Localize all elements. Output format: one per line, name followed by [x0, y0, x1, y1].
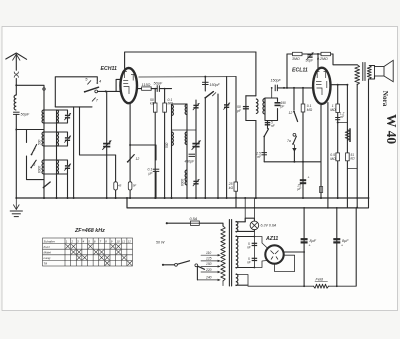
node bus 337 [337, 197, 339, 199]
node left bus [15, 197, 17, 199]
svg-text:AZ11: AZ11 [265, 236, 278, 242]
HT winding [236, 236, 238, 268]
wire res to cap [151, 88, 157, 90]
ground symbol [10, 198, 23, 217]
wire row0 bottom [44, 119, 68, 123]
svg-text:+: + [309, 244, 311, 248]
tap wire 125 [201, 260, 220, 262]
wavechange lever S2 [43, 182, 51, 188]
node r2 top [164, 88, 166, 90]
switch circle a [175, 263, 178, 266]
svg-text:Kurz: Kurz [44, 245, 51, 249]
svg-text:8μF: 8μF [310, 239, 317, 243]
bus junction 218 [217, 197, 219, 199]
antenna arrowhead [13, 54, 20, 60]
node det 303 [302, 161, 304, 163]
bus junction 164.6 [164, 197, 166, 199]
trimmer 50pF fb [307, 52, 314, 59]
wire fuse to primary [199, 223, 223, 226]
resistor OT primary [355, 65, 360, 85]
node det 294 [293, 161, 295, 163]
bus2 junction 327 [327, 207, 329, 209]
svg-text:Schalter: Schalter [44, 239, 56, 243]
svg-text:kΩ: kΩ [229, 186, 234, 190]
bus junction 171.5 [171, 197, 173, 199]
node plate 347 [346, 84, 348, 86]
wire avc res low [302, 112, 304, 198]
svg-text:50 W: 50 W [156, 241, 165, 245]
tap wire 150 [201, 265, 220, 267]
switch 7a lever [292, 136, 296, 145]
wire zig down [356, 84, 358, 208]
tuning gang C1 [102, 140, 111, 149]
capacitor 5nF b [252, 258, 258, 260]
capacitor 150pF grid [271, 79, 282, 92]
svg-text:ECH11: ECH11 [101, 66, 117, 72]
bus junction 187 [186, 197, 188, 199]
speaker return wire [356, 79, 368, 208]
bus junction 155.2 [154, 197, 156, 199]
capacitor tubular a [114, 182, 118, 190]
svg-text:115Ω: 115Ω [142, 83, 151, 87]
wire rail x115 [115, 155, 117, 198]
osc coil Lc [172, 132, 174, 146]
tube ECL11 electrodes [315, 72, 328, 96]
transformer primary [221, 226, 225, 281]
bottom rail [248, 285, 314, 287]
wire row0 top [44, 110, 68, 114]
svg-text:6000: 6000 [181, 179, 185, 186]
node gang tap [105, 90, 107, 92]
lamp feed step [245, 218, 254, 222]
capacitor 25uF cathode [300, 180, 306, 183]
svg-text:2: 2 [70, 239, 73, 243]
node sw12 top [293, 87, 295, 89]
bus junction 44 [43, 197, 45, 199]
wire filter a [303, 208, 305, 286]
antenna coil L1 [14, 95, 16, 110]
wire rail x205 low [204, 99, 206, 199]
osc band lever [204, 92, 213, 99]
speaker lead top [369, 66, 374, 67]
node rail 336 [336, 285, 338, 287]
fuse 0.5A [191, 221, 200, 225]
wire row2 bottom [44, 169, 68, 174]
resistor 0.1M avc [301, 104, 305, 112]
svg-text:3: 3 [33, 163, 35, 167]
svg-text:Feld: Feld [316, 277, 324, 281]
tube ECH11 envelope [120, 68, 137, 103]
node bus 255 [255, 197, 257, 199]
wire HT bottom to AZ11 [236, 267, 255, 269]
svg-text:8μF: 8μF [342, 239, 349, 243]
heater rail x245 [244, 198, 246, 222]
wire ECH11 top cap [125, 52, 256, 69]
wire AZ11 cathode [284, 251, 304, 253]
wire fb to tube top [317, 54, 319, 68]
tap wire 240 [197, 279, 219, 281]
wire box drop x73 [73, 107, 75, 198]
bus1 junction 357.1 [356, 197, 358, 199]
resistor 50k [153, 103, 157, 112]
wire rail x56 [56, 110, 58, 198]
node 5nF b [254, 267, 256, 269]
wire node to filters [16, 129, 44, 131]
node rail56 bus [56, 197, 58, 199]
svg-text:12: 12 [128, 239, 132, 243]
IFT1 primary coil [256, 99, 258, 114]
wire top y77 triode anode [139, 76, 236, 78]
OT core a [362, 63, 364, 81]
wire x255 top [255, 52, 257, 96]
switch contact 3 [30, 160, 36, 168]
trimmer C4 [64, 136, 71, 143]
wire sw12 to det [293, 151, 295, 162]
node 5nF a [254, 236, 256, 238]
wire grid to ECH11 [98, 90, 121, 92]
svg-text:6.3V 0.6A: 6.3V 0.6A [261, 224, 277, 228]
wire detector down [263, 137, 265, 162]
wire cath link2 [347, 168, 357, 170]
bus2 junction 254 [254, 207, 256, 209]
arrow contact [293, 145, 296, 152]
node bus 321 [320, 197, 322, 199]
node loop2 up [271, 87, 273, 89]
wire osc row2 [172, 129, 197, 131]
tap arrow 150 [218, 265, 221, 267]
capacitor IFT1 sec [275, 103, 281, 106]
node bus2 336 [336, 207, 338, 209]
IFT1 loop1 top [246, 95, 256, 97]
wire HT top to AZ11 [236, 236, 255, 238]
node heater 245 [244, 197, 246, 199]
osc coil Lb [185, 105, 187, 115]
svg-text:500: 500 [38, 139, 42, 145]
svg-text:50pF: 50pF [306, 59, 315, 63]
node osc 145 [129, 144, 131, 146]
wire trimmer rail to bus [67, 174, 69, 198]
bus2 junction 304 [303, 207, 305, 209]
bus1 junction 321 [320, 197, 322, 199]
node at 129.5 [15, 129, 17, 131]
right edge filter [355, 208, 357, 286]
wire 5nF pair [253, 237, 255, 268]
wire HT top b [254, 237, 266, 248]
winding3 tap [236, 275, 248, 286]
svg-text:11: 11 [122, 239, 125, 243]
resistor 5k cath [346, 153, 350, 161]
transformer core a [228, 220, 230, 287]
svg-text:MΩ: MΩ [330, 157, 336, 161]
switch position table [43, 238, 133, 266]
mains lever b [198, 266, 205, 269]
tap arrow 125 [218, 260, 221, 262]
capacitor 8uF b [333, 239, 340, 242]
node cath 122 [337, 122, 339, 124]
svg-text:150: 150 [206, 262, 212, 266]
svg-text:10: 10 [116, 239, 120, 243]
svg-text:220: 220 [205, 268, 212, 272]
node bus2 127 [126, 197, 128, 199]
resistor small on pin line [320, 187, 323, 193]
svg-text:450pF: 450pF [185, 160, 196, 164]
wire r50k to bus [154, 112, 156, 198]
speaker lead bottom [369, 76, 375, 79]
ground bus [16, 197, 368, 199]
node bus 171 [171, 197, 173, 199]
IFT1 loop2 left [264, 98, 266, 115]
node bus 226 [226, 197, 228, 199]
contact dot 4 [96, 82, 98, 84]
node fb grid [286, 87, 288, 89]
node bus 164 [164, 197, 166, 199]
node r1 top [154, 88, 156, 90]
switch column lower [27, 156, 45, 180]
wire grid step up [116, 79, 121, 91]
capacitor 0.1uF osc [153, 169, 160, 171]
wire rail x226 [226, 77, 228, 198]
field coil Feld [314, 284, 329, 288]
IFT1 loop2 bottom [265, 109, 278, 121]
bus junction 196 [195, 197, 197, 199]
lamp wire bottom [236, 230, 255, 232]
wire osc to cap 156 [130, 145, 156, 160]
resistor 0.5M cath [336, 153, 340, 161]
wire primary bottom [222, 281, 224, 286]
mains lever a [178, 261, 190, 264]
node filter a [303, 251, 305, 253]
capacitor 2.5nF [261, 153, 267, 155]
rectifier heater winding [236, 274, 238, 286]
coil L4 right winding [57, 160, 59, 174]
capacitor 8uF a [301, 239, 308, 242]
bus junction 115.6 [115, 197, 117, 199]
coil L3 left winding [42, 132, 44, 146]
wire rail x187 [186, 104, 188, 198]
svg-text:500: 500 [165, 142, 169, 148]
osc trimmer top [193, 103, 200, 110]
wire grid y88 b [277, 87, 313, 89]
OT secondary [367, 66, 371, 80]
svg-text:Nora: Nora [381, 91, 389, 107]
bus junction 56.5 [56, 197, 58, 199]
osc trimmer bottom [193, 179, 200, 186]
B+ bus lower [127, 198, 356, 208]
coil L4 left winding [42, 160, 44, 174]
wire row1 bottom [44, 141, 68, 146]
svg-text:Mittel: Mittel [44, 251, 52, 255]
capacitor 50pF antenna [13, 112, 30, 116]
switch circle b [195, 264, 198, 267]
svg-text:+: + [341, 244, 343, 248]
node 1M top [337, 84, 339, 86]
detector lever [263, 129, 268, 138]
svg-text:Lang: Lang [44, 256, 51, 260]
lamp wire left [236, 221, 245, 223]
node bus 196 [195, 197, 197, 199]
wire switch box bottom [55, 106, 92, 108]
svg-text:MΩ: MΩ [330, 108, 336, 112]
tap wire 110 [201, 254, 220, 256]
bottom rail left [236, 284, 248, 286]
lamp rail x254 [253, 198, 255, 218]
capacitor 50pF coupling [154, 82, 163, 92]
grid contact circle [95, 90, 98, 93]
svg-text:6000: 6000 [38, 166, 42, 173]
coil L2 right winding [57, 110, 59, 123]
node bus 67 [67, 197, 69, 199]
wire rail x44 [43, 110, 45, 198]
resistor 0.1M [163, 103, 167, 112]
wire rail x236 [235, 77, 237, 208]
node bus 130 [129, 197, 131, 199]
band switch lever S1 [84, 87, 99, 93]
svg-text:240: 240 [205, 276, 212, 280]
wire row1 top [44, 132, 68, 137]
switch contact 2 [31, 145, 37, 156]
mains terminal b [162, 264, 164, 266]
wire detector horiz [264, 161, 321, 163]
IFT1 cap line [245, 96, 247, 121]
wire avc res [302, 88, 304, 104]
wire x255 bottom [255, 121, 257, 199]
wire rail x218 [217, 94, 219, 198]
capacitor 5nF det [265, 123, 271, 125]
AZ11 heater loop [275, 255, 295, 271]
wire ECL11 pin a [320, 104, 322, 198]
svg-text:7a: 7a [287, 139, 291, 143]
antenna pole wire [15, 55, 17, 71]
capacitor 5nF a [252, 243, 258, 245]
svg-text:+: + [308, 176, 310, 180]
wire osc rows top [172, 103, 188, 105]
svg-text:2: 2 [33, 148, 36, 152]
speaker LS [375, 60, 394, 81]
mains terminal a [166, 222, 168, 224]
svg-text:3MΩ: 3MΩ [292, 57, 300, 61]
wire cap on [159, 88, 171, 90]
node bus1 end [368, 197, 370, 199]
resistor 0.2M [317, 52, 331, 61]
wire rail x196 [195, 100, 197, 198]
capacitor 1.2nF [335, 118, 340, 120]
node bus 218 [217, 197, 219, 199]
node bus 303 [302, 197, 304, 199]
wire antenna to node [15, 79, 17, 95]
switch contact 5 hook [88, 81, 91, 85]
node bus 155 [154, 197, 156, 199]
capacitor 150pF osc [202, 82, 220, 87]
svg-text:W 40: W 40 [384, 114, 399, 144]
resistor 1M [336, 104, 340, 113]
svg-text:50pF: 50pF [154, 82, 163, 86]
tap arrow 240 [218, 279, 221, 281]
wire filter b [336, 208, 338, 286]
svg-text:110: 110 [206, 251, 211, 255]
wire row2 top [44, 160, 68, 165]
node y88 284 [283, 87, 285, 89]
resistor 25k [234, 182, 238, 191]
capacitor IFT1 50pF [243, 107, 249, 109]
tap arrow 110 [218, 254, 221, 256]
svg-text:ZF=468 kHz: ZF=468 kHz [74, 228, 105, 234]
node fb 318 [317, 53, 319, 55]
wire r50k down [154, 89, 156, 103]
antenna coupling break [14, 72, 18, 78]
svg-text:150pF: 150pF [210, 83, 221, 87]
tube AZ11 envelope [265, 245, 283, 263]
bus junction 130.1 [129, 197, 131, 199]
wire box drop x79 to padder [80, 107, 116, 155]
wire ECH11 plate out [137, 88, 142, 90]
wire cap 156 to bus [155, 171, 157, 198]
bottom rail right [329, 285, 357, 287]
svg-text:5F: 5F [133, 184, 137, 188]
wire HT bottom b [254, 261, 266, 268]
switch contact 7 hook [92, 98, 95, 101]
tap arrow 220 [218, 271, 221, 273]
svg-text:kΩ: kΩ [351, 157, 356, 161]
resistor 115ohm [142, 83, 152, 90]
tube ECL11 envelope [313, 68, 330, 104]
capacitor 450pF padder [185, 154, 196, 163]
tuning gang C2 [192, 140, 201, 149]
node bus 236 [235, 197, 237, 199]
trimmer x226 [223, 103, 230, 110]
tube ECH11 electrodes [122, 72, 135, 95]
wire 5nF stub [267, 121, 269, 129]
switch 12 lever [293, 111, 298, 122]
wire switch box top [55, 77, 97, 107]
node rail44 bus [43, 197, 45, 199]
svg-text:50pF: 50pF [21, 113, 30, 117]
wire r01M down [164, 89, 166, 103]
wire rail x171 [171, 104, 173, 198]
transformer core b [231, 220, 233, 287]
wire r01M to bus [164, 112, 166, 198]
bus junction 205.3 [204, 197, 206, 199]
switch column wire [26, 130, 28, 143]
bus junction 236 [235, 197, 237, 199]
tube AZ11 electrodes [271, 251, 279, 260]
svg-text:125: 125 [206, 257, 212, 261]
bus junction 156 [155, 197, 157, 199]
svg-text:ECL11: ECL11 [292, 68, 308, 74]
label Feld underline [315, 280, 328, 282]
wire antenna down [15, 114, 17, 198]
pot volume [345, 130, 349, 141]
wire ECH11 cathode down [129, 103, 131, 198]
osc coil La [172, 105, 174, 116]
svg-text:MΩ: MΩ [307, 108, 313, 112]
wire cath link [338, 122, 348, 124]
node 205 top [204, 76, 206, 78]
svg-text:0.5A: 0.5A [190, 217, 198, 221]
node 357 bus2 [356, 207, 358, 209]
svg-text:150pF: 150pF [271, 79, 282, 83]
svg-text:12: 12 [136, 157, 140, 161]
IFT1 loop2 top [265, 98, 278, 102]
svg-text:kΩ: kΩ [150, 102, 155, 106]
bus junction 106.7 [106, 197, 108, 199]
svg-text:TA: TA [44, 262, 48, 266]
IFT1 secondary coil [263, 99, 265, 115]
wire to fuse [167, 222, 191, 224]
wire loop2 up [271, 88, 273, 98]
node bus 205 [204, 197, 206, 199]
wire fb row [287, 53, 333, 55]
coil L3 right winding [57, 132, 59, 146]
